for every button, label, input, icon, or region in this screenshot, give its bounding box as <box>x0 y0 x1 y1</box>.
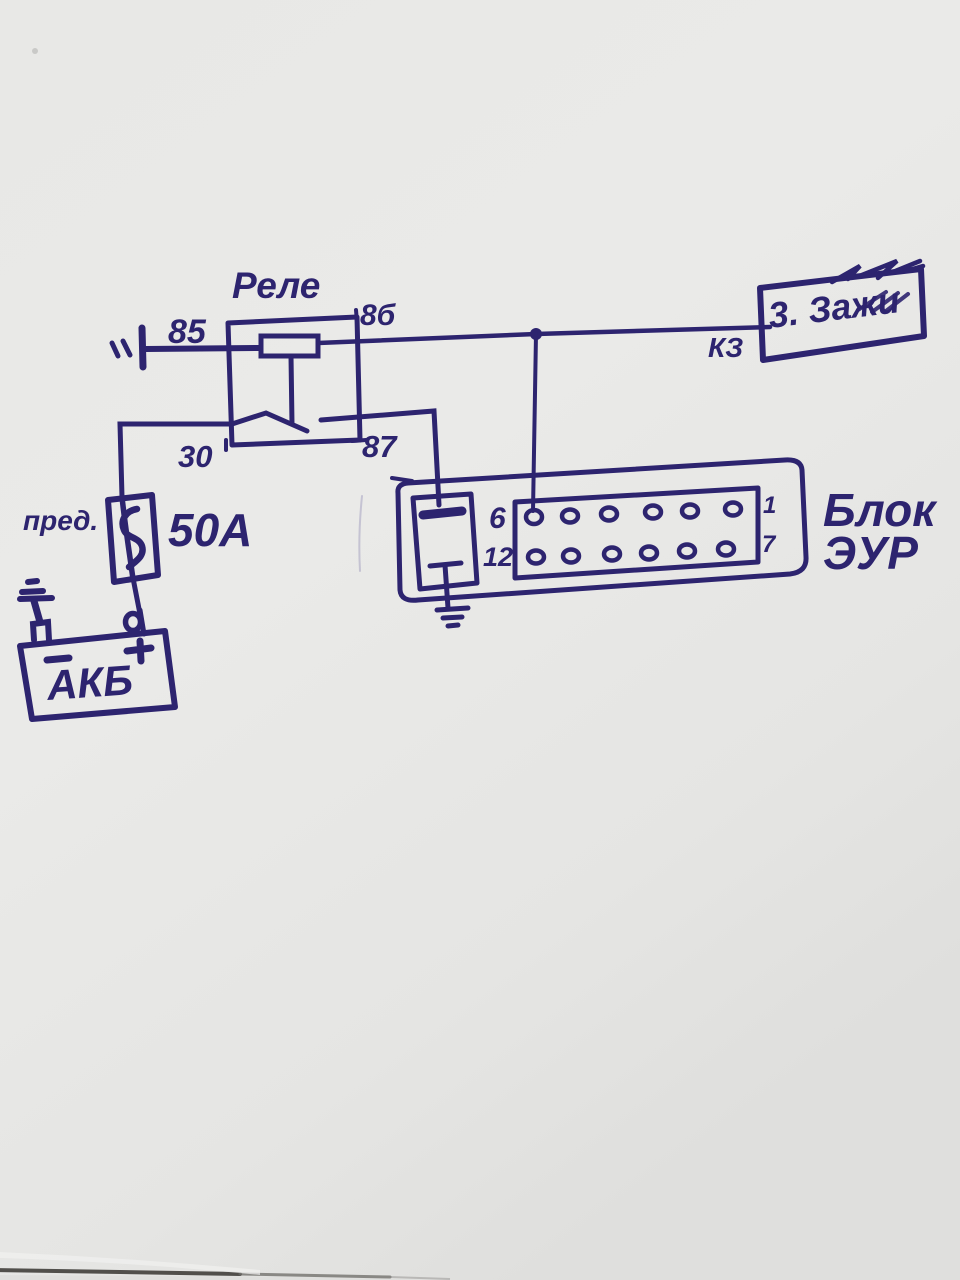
svg-text:85: 85 <box>168 313 207 351</box>
wire fuse to battery plus <box>133 578 140 614</box>
relay coil <box>261 336 318 356</box>
wire 87 from relay to ЭУР connector <box>321 411 439 505</box>
ground at battery minus <box>20 581 52 622</box>
stem to ground below ЭУР <box>445 565 448 608</box>
svg-text:пред.: пред. <box>23 505 98 536</box>
ЭУР outer block <box>398 460 806 600</box>
svg-text:ЭУР: ЭУР <box>823 527 918 579</box>
ground below ЭУР <box>437 608 468 626</box>
wire junction down to pin 6 <box>533 334 536 511</box>
pin circle bottom 2 <box>563 550 579 563</box>
scribble over ignition text end <box>858 292 908 312</box>
fuse F1 box <box>108 495 158 582</box>
pin circle top 2 <box>562 510 578 523</box>
svg-text:50А: 50А <box>168 504 252 556</box>
svg-text:87: 87 <box>362 429 398 464</box>
pin connector rect <box>515 488 758 578</box>
pin circle top 4 <box>645 506 661 519</box>
pin circle bottom 3 <box>604 548 620 561</box>
pin circle top 5 <box>682 505 698 518</box>
power connector rect inside ЭУР <box>413 494 477 589</box>
relay box <box>228 317 360 445</box>
battery АКБ box <box>20 631 175 719</box>
power connector minus terminal <box>430 563 461 566</box>
power connector plus terminal <box>423 511 462 515</box>
faint pen scratch left of ЭУР block <box>359 496 362 571</box>
svg-text:30: 30 <box>178 439 212 474</box>
svg-text:8б: 8б <box>360 299 397 332</box>
svg-text:Реле: Реле <box>232 265 320 306</box>
pin 7 circle <box>718 543 734 556</box>
ground (chassis) at relay pin 85 <box>112 328 143 367</box>
faint speck top-left <box>32 48 38 54</box>
relay corner overshoots <box>226 310 366 450</box>
battery plus sign <box>127 641 151 661</box>
pin circle bottom 5 <box>679 545 695 558</box>
paper bottom edge <box>0 1275 430 1280</box>
battery minus sign <box>47 658 69 660</box>
scribble above ignition box <box>832 261 923 282</box>
battery plus terminal loop <box>140 610 144 634</box>
wire 86 from coil to ignition box <box>318 327 770 343</box>
relay switch contact <box>232 413 307 431</box>
node junction <box>530 328 542 340</box>
pin circle bottom 4 <box>641 547 657 560</box>
svg-text:12: 12 <box>483 542 513 572</box>
pin 12 circle <box>528 551 544 564</box>
pin circle top 3 <box>601 508 617 521</box>
fuse through-wire <box>122 497 133 579</box>
svg-text:7: 7 <box>762 531 777 558</box>
wire 85 <box>146 348 260 349</box>
svg-text:АКБ: АКБ <box>44 656 134 709</box>
wire 30 from relay to fuse <box>120 424 232 497</box>
pen overshoot at block top left <box>392 478 412 481</box>
fuse squiggle <box>123 509 143 567</box>
pin 1 circle <box>725 503 741 516</box>
ignition box 3.Зажиг <box>760 269 924 360</box>
light streak above bottom edge <box>0 1252 260 1275</box>
battery minus terminal <box>33 622 49 640</box>
svg-text:6: 6 <box>489 502 506 535</box>
pin 6 circle <box>526 510 542 524</box>
relay coil stem wire <box>291 356 292 424</box>
svg-text:1: 1 <box>763 492 776 519</box>
svg-text:КЗ: КЗ <box>708 332 743 363</box>
